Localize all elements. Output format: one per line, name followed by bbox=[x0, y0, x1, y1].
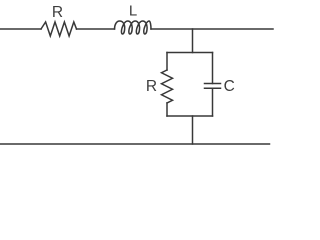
wire top rail left segment bbox=[0, 28, 41, 30]
label R (shunt resistor value) bbox=[146, 78, 157, 95]
wire bottom rail bbox=[0, 143, 270, 145]
svg-text:R: R bbox=[146, 78, 157, 95]
inductor L bbox=[115, 21, 152, 34]
resistor R (shunt) bbox=[162, 70, 173, 103]
resistor R (series) bbox=[41, 22, 77, 36]
node junction top (tap to shunt branch) bbox=[192, 29, 194, 53]
capacitor C bbox=[205, 84, 221, 89]
node junction bottom (shunt branch to bottom rail) bbox=[192, 116, 194, 144]
label L (inductor value) bbox=[129, 3, 137, 20]
wire top rail right segment bbox=[151, 28, 273, 30]
wire shunt box top bbox=[167, 52, 213, 54]
wire left branch upper lead bbox=[166, 53, 168, 71]
wire shunt box bottom bbox=[167, 115, 213, 117]
svg-text:C: C bbox=[224, 78, 235, 95]
label C (capacitor value) bbox=[224, 78, 235, 95]
svg-text:R: R bbox=[52, 4, 63, 21]
wire right branch upper lead bbox=[212, 53, 214, 84]
wire left branch lower lead bbox=[166, 103, 168, 116]
wire top rail between R and L bbox=[77, 28, 115, 30]
svg-text:L: L bbox=[129, 3, 137, 20]
label R (series resistor value) bbox=[52, 4, 63, 21]
wire right branch lower lead bbox=[212, 88, 214, 116]
